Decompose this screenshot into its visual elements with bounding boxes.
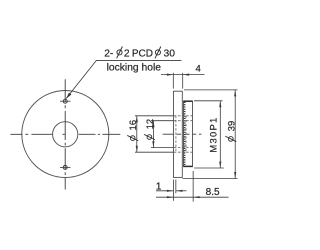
svg-text:12: 12 bbox=[144, 119, 155, 129]
dimension phi39 bbox=[183, 90, 238, 179]
locking hole bottom bbox=[60, 165, 71, 169]
dimension phi12 bbox=[151, 121, 174, 148]
dimension M30P1 bbox=[194, 101, 224, 168]
note text: 2-phi2 PCD phi30 bbox=[104, 47, 175, 60]
dim text phi12 (rotated) bbox=[144, 119, 155, 140]
horizontal centerline front view bbox=[10, 133, 120, 135]
side view threaded boss bbox=[183, 101, 193, 166]
svg-text:30: 30 bbox=[164, 48, 176, 59]
dimension phi16 bbox=[135, 116, 174, 152]
svg-text:16: 16 bbox=[127, 120, 138, 130]
hidden bore line phi16 top bbox=[174, 115, 193, 117]
dimension 1 bbox=[156, 180, 187, 201]
svg-text:1: 1 bbox=[156, 181, 162, 192]
dimension 8.5 bbox=[156, 171, 229, 202]
hidden bore line phi12 bottom bbox=[174, 147, 193, 149]
side view centerline bbox=[163, 133, 202, 135]
front view inner bore circle bbox=[53, 122, 78, 147]
vertical centerline front view bbox=[64, 79, 66, 189]
locking hole top bbox=[60, 99, 71, 103]
hidden bore line phi16 bottom bbox=[174, 151, 193, 153]
leader line to locking hole bbox=[66, 60, 181, 98]
front view outer circle (flange OD) bbox=[22, 91, 109, 178]
svg-text:locking hole: locking hole bbox=[107, 62, 162, 73]
svg-text:2: 2 bbox=[124, 48, 130, 59]
svg-text:8.5: 8.5 bbox=[206, 187, 220, 198]
hidden counterbore step line bbox=[175, 116, 177, 152]
thread crest dotted band bbox=[184, 102, 186, 166]
svg-text:M30P1: M30P1 bbox=[207, 116, 218, 152]
side view flange plate bbox=[173, 91, 182, 177]
dim text phi16 (rotated) bbox=[127, 120, 138, 141]
svg-text:PCD: PCD bbox=[132, 48, 153, 59]
dim text phi39 (rotated) bbox=[225, 121, 236, 142]
dimension 4 bbox=[161, 73, 205, 89]
hidden bore line phi12 top bbox=[174, 120, 193, 122]
svg-text:39: 39 bbox=[225, 121, 236, 131]
hidden bore step line 2 bbox=[185, 116, 187, 152]
svg-text:2-: 2- bbox=[104, 48, 113, 59]
svg-text:4: 4 bbox=[196, 63, 201, 74]
